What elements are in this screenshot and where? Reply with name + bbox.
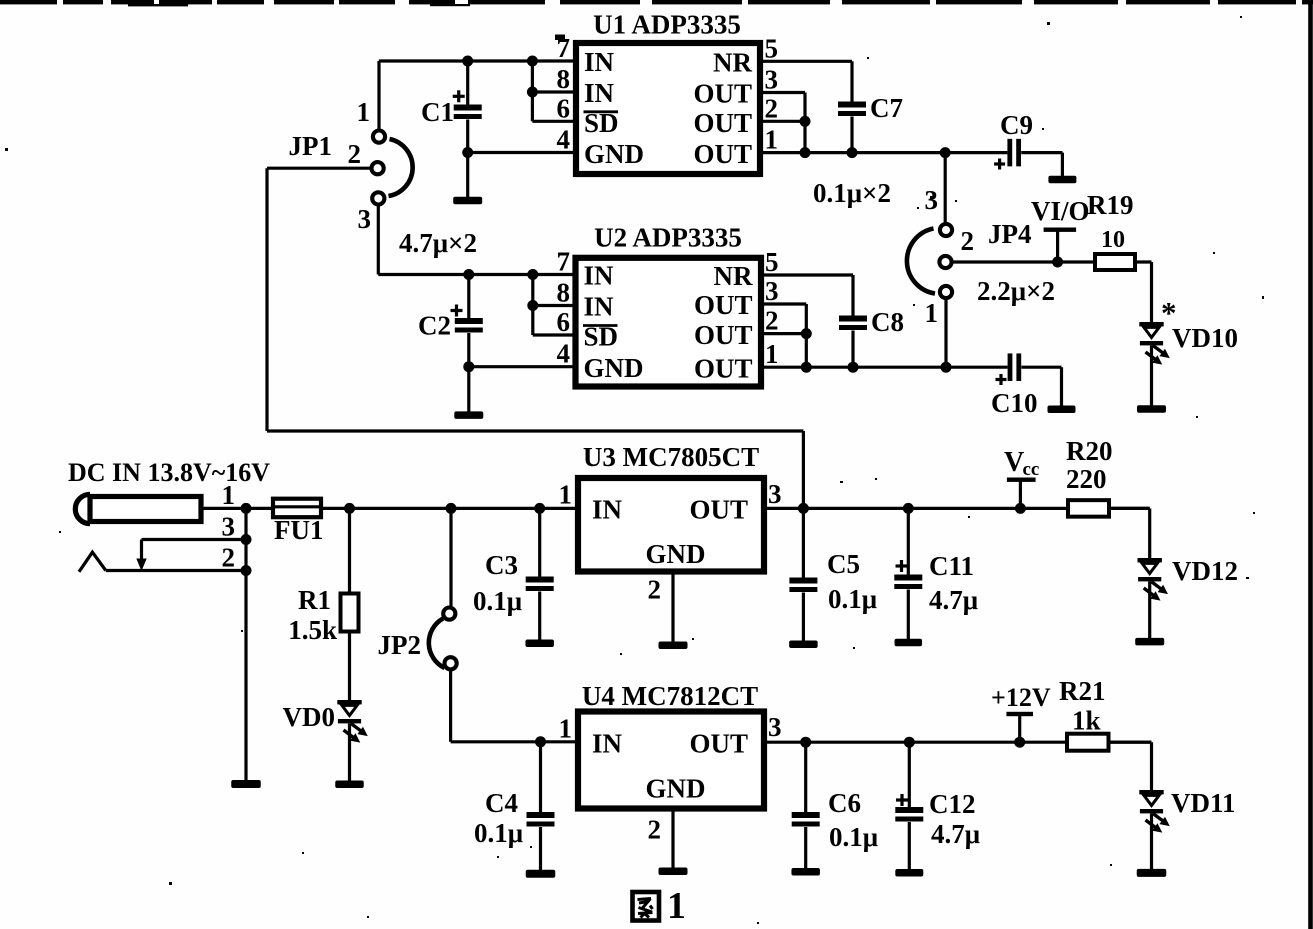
svg-text:2: 2 (765, 93, 779, 123)
wire: VD12 to ground (1148, 582, 1151, 639)
svg-text:V: V (1004, 447, 1024, 478)
svg-text:1: 1 (357, 97, 371, 127)
ground below VD12 (1135, 638, 1164, 646)
capacitor C1 (421, 61, 482, 198)
svg-text:NR: NR (714, 261, 753, 291)
wire: U1 output rail to C9 (760, 151, 1007, 154)
svg-text:cc: cc (1023, 459, 1040, 480)
scan mark near top (555, 35, 565, 41)
svg-text:NR: NR (713, 47, 752, 77)
wire: jack tip to input rail (201, 507, 246, 510)
wire: VD10 to ground (1150, 346, 1153, 407)
svg-text:U4 MC7812CT: U4 MC7812CT (582, 681, 758, 711)
svg-text:C2: C2 (418, 311, 451, 341)
svg-text:OUT: OUT (689, 495, 748, 525)
svg-text:8: 8 (557, 64, 571, 94)
wire: jack pins down column (244, 508, 247, 780)
wire: U2 input top rail (378, 273, 575, 276)
connector DC IN jack (68, 458, 270, 524)
border: right scan edge (1308, 1, 1313, 929)
svg-text:GND: GND (646, 539, 706, 569)
svg-text:2: 2 (648, 575, 662, 605)
wire: U2 NR pin5 to C8 (761, 275, 853, 316)
svg-text:R19: R19 (1087, 190, 1134, 220)
resistor R1 (288, 508, 358, 700)
svg-text:2: 2 (648, 815, 662, 845)
wire: U2 output rail to C10 (761, 366, 1008, 369)
wire: U3 GND pin to ground (671, 572, 674, 643)
svg-text:6: 6 (557, 307, 571, 337)
svg-text:OUT: OUT (693, 79, 752, 109)
capacitor C4 (474, 742, 555, 870)
svg-text:VD10: VD10 (1172, 323, 1238, 353)
jumper JP2 (378, 608, 457, 670)
svg-text:3: 3 (222, 512, 236, 542)
svg-text:7: 7 (557, 247, 571, 277)
wire: U2 pin8 branch (533, 275, 576, 336)
capacitor C2 (418, 275, 483, 413)
wire: JP4 pin2 to R19 (952, 260, 1095, 263)
svg-text:10: 10 (1101, 227, 1125, 253)
svg-text:3: 3 (765, 65, 779, 95)
node: junction pin8 U2 (527, 300, 538, 311)
svg-text:1: 1 (765, 125, 779, 155)
node: C5 / JP1-net junction (798, 503, 809, 514)
wire: JP1 pin2 to the left and down (267, 168, 371, 431)
node: C11 branch junction (903, 503, 914, 514)
wire: JP1 pin3 down to U2 input rail (377, 205, 380, 275)
svg-text:IN: IN (584, 47, 615, 77)
svg-text:IN: IN (584, 261, 615, 291)
svg-text:R21: R21 (1059, 676, 1106, 706)
ground below C12 (895, 869, 923, 877)
svg-text:VD0: VD0 (283, 702, 336, 732)
node: junction U1 input / pin8 branch (527, 56, 538, 67)
node: C8 bottom junction (848, 362, 859, 373)
svg-text:1: 1 (222, 480, 236, 510)
ground below VD0 (335, 781, 364, 789)
node: VI/O branch junction (1052, 257, 1063, 268)
svg-text:JP4: JP4 (988, 219, 1032, 249)
svg-text:JP1: JP1 (289, 131, 333, 161)
wire: main input rail to U3 IN (246, 507, 578, 510)
svg-text:JP2: JP2 (378, 630, 422, 660)
svg-text:1k: 1k (1072, 706, 1101, 736)
ground below C10 (1048, 406, 1076, 414)
node: C7 bottom junction (847, 147, 858, 158)
svg-text:U2 ADP3335: U2 ADP3335 (594, 223, 742, 253)
svg-text:0.1μ×2: 0.1μ×2 (813, 178, 891, 208)
svg-text:1.5k: 1.5k (288, 615, 337, 645)
capacitor C8 (839, 307, 904, 367)
svg-text:220: 220 (1066, 464, 1107, 494)
svg-text:R1: R1 (298, 585, 331, 615)
svg-text:IN: IN (592, 729, 623, 759)
jumper JP4 (907, 219, 1032, 298)
resistor R19 (1087, 190, 1135, 270)
node: C4 branch junction (535, 736, 546, 747)
LED VD11 (1139, 788, 1235, 833)
capacitor C5 (789, 508, 877, 641)
svg-text:OUT: OUT (694, 320, 753, 350)
svg-text:2.2μ×2: 2.2μ×2 (977, 276, 1055, 306)
node: pin2 junction U2 (801, 328, 812, 339)
svg-text:C8: C8 (871, 307, 904, 337)
IC U2 ADP3335 (576, 223, 762, 387)
svg-text:C7: C7 (870, 93, 903, 123)
capacitor C11 (894, 508, 978, 639)
node: JP4 pin3 branch junction (940, 147, 951, 158)
IC U4 MC7812CT (578, 681, 764, 809)
ground below U4 (659, 868, 688, 876)
wire: U1 GND rail (468, 151, 576, 154)
wire: JP1 pin1 up to input rail (377, 61, 380, 130)
wire: R21 to VD11 (1109, 742, 1152, 790)
wire: JP1 pin2 net down to U3 output node (267, 431, 803, 508)
ground below U3 (659, 642, 688, 650)
svg-text:C4: C4 (485, 788, 518, 818)
LED VD0 (283, 700, 368, 743)
svg-text:0.1μ: 0.1μ (828, 584, 877, 614)
resistor R20 (1066, 436, 1113, 517)
node: +12V branch junction (1014, 737, 1025, 748)
svg-text:4: 4 (557, 125, 571, 155)
fuse FU1 (273, 499, 324, 545)
power Vcc terminal (1004, 447, 1039, 508)
svg-text:IN: IN (584, 292, 615, 322)
power +12V terminal (991, 683, 1051, 742)
node: junction pin8 (527, 87, 538, 98)
svg-text:GND: GND (584, 139, 644, 169)
svg-text:6: 6 (557, 93, 571, 123)
svg-text:3: 3 (768, 479, 782, 509)
node: pin1 junction U1 (800, 147, 811, 158)
svg-text:OUT: OUT (694, 354, 753, 384)
svg-text:2: 2 (961, 226, 975, 256)
svg-text:VD11: VD11 (1171, 788, 1236, 818)
svg-text:3: 3 (768, 712, 782, 742)
svg-text:3: 3 (925, 185, 939, 215)
svg-text:1: 1 (667, 885, 686, 927)
wire: JP4 pin1 down to U2 output rail (944, 299, 947, 368)
svg-text:U3 MC7805CT: U3 MC7805CT (583, 442, 759, 472)
svg-text:5: 5 (765, 33, 779, 63)
node: C1 / GND rail junction (462, 147, 473, 158)
IC U3 MC7805CT (578, 442, 764, 572)
wire: U2 OUT pins 3-2-1 tie (761, 304, 806, 367)
node: jack pin2 junction (241, 565, 252, 576)
node: JP2 branch junction (446, 503, 457, 514)
capacitor C9 (994, 110, 1062, 176)
svg-text:VI/O: VI/O (1031, 196, 1090, 226)
terminal VI/O (1031, 196, 1090, 262)
svg-text:7: 7 (557, 33, 571, 63)
wire: U1 OUT pins 3-2-1 tie (760, 93, 805, 153)
node: C2 / GND rail junction (463, 361, 474, 372)
svg-text:3: 3 (765, 276, 779, 306)
node: pin1 junction U2 (801, 362, 812, 373)
wire: R20 to VD12 (1109, 508, 1150, 558)
svg-text:GND: GND (584, 353, 644, 383)
svg-text:1: 1 (765, 339, 779, 369)
node: jack pin1 junction (241, 503, 252, 514)
wire: U1 pin8 branch (532, 61, 576, 121)
ground below C1 (453, 197, 482, 205)
svg-text:4.7μ×2: 4.7μ×2 (399, 228, 477, 258)
svg-text:2: 2 (222, 543, 236, 573)
svg-text:0.1μ: 0.1μ (473, 586, 522, 616)
capacitor C7 (838, 93, 903, 153)
svg-text:0.1μ: 0.1μ (829, 822, 878, 852)
node: jack pin3 junction (241, 534, 252, 545)
svg-text:OUT: OUT (689, 729, 748, 759)
wire: R19 to VD10 (1135, 262, 1152, 322)
svg-text:2: 2 (348, 139, 362, 169)
wire: U4 output rail (764, 741, 1152, 744)
node: Vcc branch junction (1015, 503, 1026, 514)
ground below jack pin2 column (231, 780, 261, 788)
svg-text:4.7μ: 4.7μ (931, 819, 980, 849)
svg-text:2: 2 (765, 306, 779, 336)
node: C1 top junction (462, 56, 473, 67)
svg-text:4.7μ: 4.7μ (929, 585, 978, 615)
svg-text:GND: GND (646, 774, 706, 804)
node: R1 branch junction (344, 503, 355, 514)
svg-text:VD12: VD12 (1172, 556, 1238, 586)
svg-text:DC IN 13.8V~16V: DC IN 13.8V~16V (68, 458, 270, 487)
capacitor C3 (473, 508, 554, 640)
border: top scan edge (dashed) (0, 0, 1313, 6)
node: pin2 junction U1 (800, 116, 811, 127)
svg-text:C10: C10 (991, 388, 1038, 418)
wire: JP2 top to input rail (449, 508, 452, 607)
svg-text:R20: R20 (1066, 436, 1113, 466)
svg-text:OUT: OUT (693, 108, 752, 138)
wire: VD11 to ground (1150, 814, 1153, 870)
ground below C5 (789, 641, 818, 649)
wire: U1 input top rail (JP1 pin1 to U1 pin7) (379, 59, 576, 62)
svg-text:C1: C1 (421, 97, 454, 127)
wire: jack ring contact (pin 3) with arrow (136, 540, 246, 572)
svg-text:8: 8 (557, 278, 571, 308)
svg-text:0.1μ: 0.1μ (474, 818, 523, 848)
svg-text:+12V: +12V (991, 683, 1051, 712)
node: junction U2 input / pin8 branch (527, 269, 538, 280)
svg-text:1: 1 (925, 298, 939, 328)
wire: U3 output rail (764, 507, 1150, 510)
svg-text:C3: C3 (485, 550, 518, 580)
wire: jack sleeve contact (pin 2) with spring caret (79, 552, 246, 572)
ground below C4 (526, 870, 556, 878)
LED VD12 (1138, 556, 1239, 601)
svg-text:5: 5 (765, 247, 779, 277)
svg-text:3: 3 (358, 204, 372, 234)
svg-text:C9: C9 (1000, 110, 1033, 140)
svg-text:4: 4 (557, 339, 571, 369)
resistor R21 (1059, 676, 1109, 751)
svg-text:C6: C6 (828, 788, 861, 818)
node: C2 top junction (463, 269, 474, 280)
node: JP4 pin1 branch junction (941, 362, 952, 373)
caption figure 1 (633, 885, 687, 927)
ground below C6 (791, 868, 820, 876)
jumper JP1 (289, 131, 413, 205)
ground below C2 (454, 411, 483, 419)
capacitor C6 (792, 742, 878, 868)
capacitor C10 (991, 353, 1062, 418)
svg-text:1: 1 (559, 714, 573, 744)
svg-text:FU1: FU1 (274, 515, 324, 545)
svg-text:IN: IN (584, 78, 615, 108)
ground below VD10 (1137, 405, 1166, 413)
svg-text:IN: IN (592, 495, 623, 525)
wire: U2 GND rail (469, 365, 576, 368)
ground below VD11 (1137, 869, 1167, 877)
LED VD10 (1139, 295, 1238, 365)
ground below C9 (1048, 176, 1076, 184)
IC U1 ADP3335 (576, 10, 760, 175)
node: C3 branch junction (534, 503, 545, 514)
svg-text:C12: C12 (929, 789, 976, 819)
wire: JP2 bottom to U4 IN (451, 670, 578, 742)
wire: U1 NR pin5 to C7 (760, 61, 852, 101)
node: C6 branch junction (800, 737, 811, 748)
ground below C3 (525, 640, 554, 648)
svg-text:C5: C5 (827, 549, 860, 579)
wire: VD0 to ground (348, 724, 351, 782)
node: C12 branch junction (904, 737, 915, 748)
svg-text:U1 ADP3335: U1 ADP3335 (593, 10, 741, 40)
svg-text:C11: C11 (929, 551, 974, 581)
capacitor C12 (895, 742, 980, 869)
ground below C11 (895, 639, 923, 647)
wire: JP4 pin3 up to U1 output rail (944, 153, 947, 224)
svg-text:OUT: OUT (693, 139, 752, 169)
wire: U4 GND pin to ground (671, 809, 674, 869)
svg-text:OUT: OUT (694, 290, 753, 320)
svg-text:1: 1 (559, 480, 573, 510)
